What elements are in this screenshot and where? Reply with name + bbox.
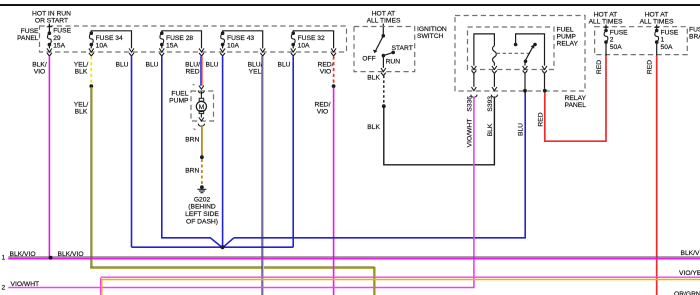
relay switch contact dot: [533, 43, 537, 47]
junction BLK/VIO row 1: [49, 256, 53, 260]
svg-text:FUEL: FUEL: [557, 26, 574, 33]
label VIO/WHT (relay): [466, 119, 473, 148]
wire VIO/YEL row: [101, 277, 700, 279]
label YEL/BLK (second): [74, 102, 89, 116]
relay pin 1 connector at relay edge: [471, 66, 476, 74]
ignition switch box: [354, 27, 415, 72]
wire RED/VIO lower segment: [333, 88, 335, 295]
svg-text:BLU: BLU: [205, 61, 218, 68]
connector at panel edge (BLU/RED): [199, 48, 204, 56]
label BLK/VIO (row 1 mid): [58, 251, 84, 258]
wire YEL/BLK lower segment: [91, 87, 92, 268]
wire YEL/BLK drop to bottom edge: [374, 267, 375, 295]
relay pin 2 connector at relay edge: [492, 66, 497, 74]
wire BLK dashed segment: [383, 76, 385, 105]
svg-text:50A: 50A: [610, 44, 622, 51]
svg-text:BLU/: BLU/: [248, 61, 263, 68]
svg-text:BLK/: BLK/: [32, 61, 47, 68]
relay panel box: [455, 16, 585, 92]
svg-text:BLK/VIO: BLK/VIO: [681, 250, 700, 257]
fuse bracket label: [689, 27, 700, 41]
feed wire into ignition switch: [382, 24, 384, 36]
relay switch armature: [524, 45, 535, 64]
wire BLU from fuse 34: [131, 56, 133, 247]
svg-text:FUSE 32: FUSE 32: [298, 35, 325, 42]
panel bus fuse 34 to BLU exit: [91, 31, 131, 49]
svg-text:RED: RED: [537, 112, 544, 126]
svg-text:BLK: BLK: [367, 124, 380, 131]
feed wire into fuse 2: [604, 25, 609, 31]
blue splice junction dot: [220, 245, 224, 249]
connector at panel edge (BLK/VIO): [47, 48, 52, 56]
label BLK (relay): [487, 123, 494, 136]
connector S336 at relay panel edge: [471, 87, 477, 97]
ground G202: [197, 185, 206, 192]
panel bus fuse 28 to BLU/RED exit: [162, 31, 202, 49]
splice junction on YEL/BLK: [89, 84, 93, 88]
svg-text:10A: 10A: [298, 42, 310, 49]
svg-text:BRN: BRN: [185, 136, 199, 143]
svg-text:OR START: OR START: [35, 17, 68, 24]
connector at panel edge (BLU 3): [220, 48, 225, 56]
connector at panel edge (BLU 1): [129, 48, 134, 56]
svg-text:S393: S393: [487, 96, 494, 112]
fuse F32: [291, 31, 295, 46]
wire F2 to bracket edge: [605, 42, 607, 55]
label RED/VIO: [318, 61, 334, 75]
connector into fuel pump: [198, 86, 204, 93]
svg-text:ALL TIMES: ALL TIMES: [640, 18, 674, 25]
wire YEL/BLK dashed upper segment: [90, 56, 92, 84]
wire BLU from fuse 43: [222, 56, 224, 247]
fuse F43: [221, 31, 225, 46]
top border rule: [0, 4, 700, 6]
svg-text:RED: RED: [185, 68, 199, 75]
fuel pump label: [169, 91, 189, 105]
svg-text:BRACKET: BRACKET: [689, 34, 700, 41]
svg-text:OF DASH): OF DASH): [186, 218, 218, 225]
label BRN (upper): [185, 136, 199, 143]
svg-text:VIO/WHT: VIO/WHT: [466, 119, 473, 148]
svg-text:15A: 15A: [53, 42, 65, 49]
svg-text:10A: 10A: [227, 42, 239, 49]
svg-text:BLU: BLU: [115, 61, 128, 68]
fuse F2 value label: [610, 29, 628, 50]
connector at panel edge (BLU 4): [291, 48, 296, 56]
svg-text:FUSE: FUSE: [661, 29, 679, 36]
wire BRN dashed segment: [201, 159, 203, 184]
svg-text:VIO/WHT: VIO/WHT: [11, 281, 40, 288]
fuse F2: [604, 29, 608, 44]
connector tick below fuel pump: [194, 128, 196, 130]
svg-text:(BEHIND: (BEHIND: [188, 204, 216, 211]
connector at panel edge (YEL/BLK): [89, 48, 94, 56]
relay pin 3 connector at relay edge: [523, 63, 528, 74]
svg-text:PUMP: PUMP: [557, 33, 577, 40]
fuse F28 value label: [166, 35, 193, 50]
svg-text:OR/GRN: OR/GRN: [674, 291, 700, 295]
row 2 marker: [2, 285, 6, 292]
wire F28 to panel edge: [161, 45, 163, 49]
svg-text:FUSE: FUSE: [21, 28, 39, 35]
svg-text:FUSE: FUSE: [689, 27, 700, 34]
blue bus lower run: [132, 246, 294, 248]
svg-text:HOT IN RUN: HOT IN RUN: [32, 10, 71, 17]
junction dot BLU at relay panel edge: [523, 89, 527, 93]
connector out of fuel pump: [198, 117, 204, 126]
svg-text:START: START: [392, 45, 413, 52]
relay armature linkage (dashed): [497, 52, 531, 54]
fuse panel label: [17, 28, 39, 42]
svg-text:VIO: VIO: [320, 68, 332, 75]
svg-text:VIO: VIO: [34, 68, 46, 75]
label RED (fuse 1): [647, 60, 654, 74]
svg-text:FUSE: FUSE: [610, 29, 628, 36]
wire RUN contact to box edge: [382, 56, 384, 68]
wire relay pin 4 to panel edge: [544, 74, 546, 89]
label YEL/BLK: [74, 61, 89, 75]
svg-text:IGNITION: IGNITION: [417, 26, 447, 33]
svg-text:FUSE 34: FUSE 34: [96, 35, 123, 42]
label BLK/VIO (row 1 right): [681, 250, 700, 257]
header HOT AT ALL TIMES (ignition feed): [367, 10, 401, 24]
label RED (relay): [537, 112, 544, 126]
fuel pump box: [191, 91, 214, 121]
fuse F1 value label: [661, 29, 679, 50]
svg-text:10A: 10A: [96, 42, 108, 49]
svg-text:RELAY: RELAY: [565, 95, 587, 102]
wire RED/VIO dashed upper segment: [333, 56, 335, 84]
label BLU (relay): [517, 123, 524, 136]
svg-text:OFF: OFF: [362, 55, 375, 62]
label VIO/WHT (row 2 left): [11, 281, 40, 288]
svg-text:PANEL: PANEL: [17, 35, 39, 42]
fuse F34 value label: [96, 35, 123, 50]
wire F1 to bracket edge: [656, 42, 658, 55]
label BLU 2: [145, 61, 158, 68]
wire BLU/RED to fuel pump: [201, 56, 202, 86]
svg-text:FUSE 28: FUSE 28: [166, 35, 193, 42]
wire BLK/VIO row 1: [8, 257, 700, 259]
svg-text:ALL TIMES: ALL TIMES: [589, 18, 623, 25]
svg-text:BLK: BLK: [75, 68, 88, 75]
svg-text:YEL: YEL: [249, 68, 262, 75]
svg-text:FUSE: FUSE: [53, 28, 71, 35]
label START: [392, 45, 413, 52]
svg-text:VIO: VIO: [317, 109, 329, 116]
wire BLU/YEL to bottom edge: [262, 56, 263, 295]
contact RUN: [382, 54, 386, 58]
svg-text:BLU: BLU: [145, 61, 158, 68]
svg-text:RUN: RUN: [386, 59, 401, 66]
label BLU 4: [277, 61, 290, 68]
svg-text:2: 2: [2, 285, 6, 292]
svg-text:S336: S336: [466, 96, 473, 112]
label RED (fuse 2): [596, 60, 603, 74]
fuel pump motor M1: [196, 92, 206, 118]
label BRN (lower): [185, 168, 199, 175]
svg-text:HOT AT: HOT AT: [645, 11, 669, 18]
label VIO/YEL (right): [679, 270, 700, 277]
ignition switch label: [417, 26, 447, 40]
fuse F32 value label: [298, 35, 325, 50]
wire YEL/BLK horizontal run: [90, 267, 374, 268]
svg-text:BLK: BLK: [367, 74, 380, 81]
svg-text:YEL/: YEL/: [74, 102, 89, 109]
fuse F34: [89, 31, 93, 46]
panel bus fuse 43 to BLU/YEL exit: [223, 31, 263, 49]
wire RED relay to fuse 2: [545, 55, 606, 141]
fuse F28: [160, 31, 164, 46]
relay switch fixed rail: [514, 34, 545, 66]
wire relay pin 3 to panel edge: [524, 74, 526, 89]
label RUN: [386, 59, 401, 66]
svg-text:YEL/: YEL/: [74, 61, 89, 68]
wire RED fuse 1 to bottom edge: [656, 56, 658, 295]
label BLK (upper): [367, 74, 380, 81]
svg-text:BLK: BLK: [75, 109, 88, 116]
fuel pump relay box: [468, 27, 555, 70]
svg-text:HOT AT: HOT AT: [594, 11, 618, 18]
wire BLK/VIO (fuse 29 to splice): [48, 56, 50, 257]
svg-text:2: 2: [610, 37, 614, 44]
fuse F43 value label: [227, 35, 254, 50]
label G202 (BEHIND LEFT SIDE OF DASH): [185, 196, 219, 225]
svg-text:50A: 50A: [661, 44, 673, 51]
wire BLU from fuse 32: [292, 56, 294, 247]
wire VIO/WHT relay to row 2: [8, 97, 474, 288]
junction dot RED at relay panel edge: [543, 89, 547, 93]
label S336: [466, 96, 473, 112]
wire F34 to panel edge: [90, 45, 92, 49]
connector S393 at relay panel edge: [491, 87, 497, 97]
label BLU 3: [205, 61, 218, 68]
blue bus diagonal from relay side: [223, 238, 234, 247]
label BLU 1: [115, 61, 128, 68]
svg-text:G202: G202: [194, 196, 211, 203]
wire VIO/YEL drop to bottom edge: [101, 278, 102, 295]
svg-text:PANEL: PANEL: [565, 102, 587, 109]
wire relay pin 2 to panel edge: [493, 74, 495, 87]
wire relay pin 1 to panel edge: [473, 74, 475, 87]
svg-text:RED: RED: [596, 60, 603, 74]
row 1 marker: [2, 255, 6, 262]
relay panel label: [565, 95, 587, 109]
svg-text:1: 1: [661, 37, 665, 44]
svg-text:FUEL: FUEL: [171, 91, 188, 98]
header HOT AT ALL TIMES (fuse 1 feed): [640, 11, 674, 25]
wire BLK ignition to relay: [384, 97, 495, 165]
header HOT IN RUN OR START: [32, 10, 71, 24]
connector at panel edge (BLU 2): [159, 48, 164, 56]
svg-text:1: 1: [2, 255, 6, 262]
relay pin 4 connector at relay edge: [542, 66, 547, 74]
label S393: [487, 96, 494, 112]
svg-text:29: 29: [53, 35, 61, 42]
ignition switch pivot: [382, 34, 386, 38]
svg-text:BLK: BLK: [487, 123, 494, 136]
svg-text:PUMP: PUMP: [169, 98, 189, 105]
fuel pump relay label: [557, 26, 579, 47]
blue bus upper run to relay: [234, 92, 525, 238]
wire BLU from fuse 28: [162, 56, 222, 247]
svg-text:BLU: BLU: [277, 61, 290, 68]
svg-text:SWITCH: SWITCH: [417, 33, 444, 40]
splice junction on BLK: [382, 104, 386, 108]
connector at ignition box edge: [381, 68, 386, 76]
svg-text:RED: RED: [647, 60, 654, 74]
label BLU/RED: [185, 61, 200, 75]
svg-text:RED/: RED/: [318, 61, 334, 68]
svg-text:15A: 15A: [166, 42, 178, 49]
panel bus fuse 32 to RED/VIO exit: [293, 31, 333, 49]
feed wire into fuse 1: [654, 25, 659, 31]
wire F32 to panel edge: [292, 45, 294, 49]
svg-text:ALL TIMES: ALL TIMES: [367, 17, 401, 24]
svg-text:BLK/VIO: BLK/VIO: [58, 251, 84, 258]
label OR/GRN (bottom right): [674, 291, 700, 295]
label BLK/VIO (row 1 left): [10, 251, 36, 258]
label BLU/YEL: [248, 61, 263, 75]
svg-text:FUSE 43: FUSE 43: [227, 35, 254, 42]
label BLK/VIO: [32, 61, 47, 75]
fuse F1: [655, 29, 659, 44]
ignition switch lever to OFF: [373, 36, 383, 53]
splice junction on RED/VIO: [332, 84, 336, 88]
wire F29 to panel edge: [48, 45, 50, 49]
connector tick above fuel pump: [193, 84, 195, 86]
connector at panel edge (RED/VIO): [331, 48, 336, 56]
wire BRN upper segment: [201, 125, 203, 155]
relay coil K1: [474, 34, 496, 66]
svg-text:RED/: RED/: [315, 102, 331, 109]
fuse F29 value label: [53, 28, 71, 50]
svg-text:M: M: [199, 104, 205, 111]
svg-text:HOT AT: HOT AT: [372, 10, 396, 17]
label RED/VIO (second): [315, 102, 331, 116]
svg-text:BRN: BRN: [185, 168, 199, 175]
label BLK (lower): [367, 124, 380, 131]
svg-text:LEFT SIDE: LEFT SIDE: [185, 211, 219, 218]
fuse F29: [48, 31, 52, 46]
svg-text:BLU/: BLU/: [185, 61, 200, 68]
label OFF: [362, 55, 375, 62]
svg-text:RELAY: RELAY: [557, 40, 579, 47]
svg-text:VIO/YEL: VIO/YEL: [679, 270, 700, 277]
feed wire into fuse 29: [47, 24, 52, 34]
svg-text:BLU: BLU: [517, 123, 524, 136]
contact START: [383, 51, 395, 56]
fuse bracket box: [595, 27, 688, 55]
connector at panel edge (BLU/YEL): [260, 48, 265, 56]
fuse panel box: [40, 26, 347, 52]
splice junction on BRN: [200, 155, 204, 159]
header HOT AT ALL TIMES (fuse 2 feed): [589, 11, 623, 25]
wire F43 to panel edge: [222, 45, 224, 49]
